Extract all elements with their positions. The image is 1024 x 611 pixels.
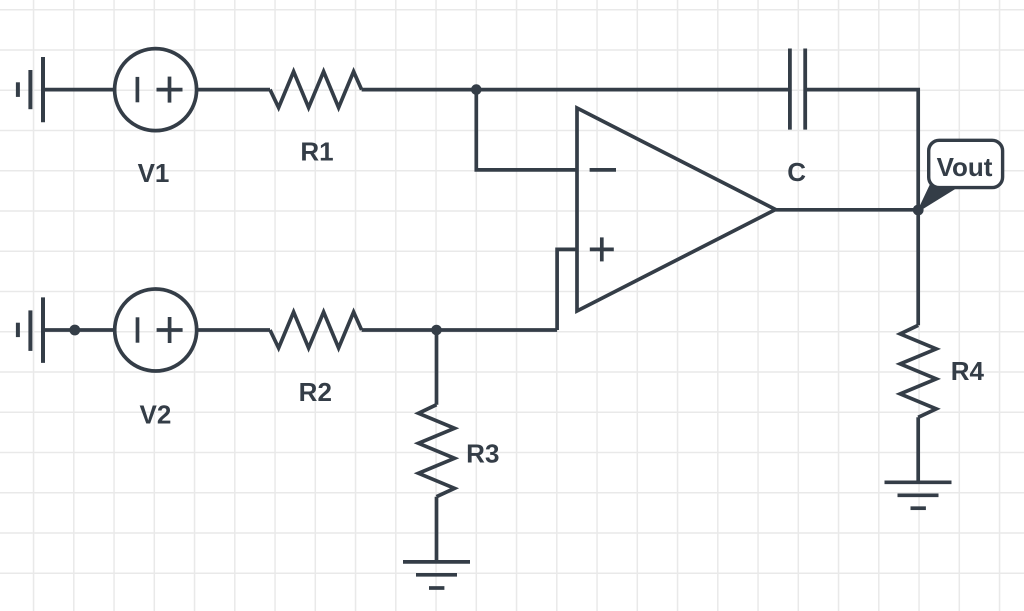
node Vout junction dot	[913, 205, 924, 216]
ground (left of V2)	[18, 297, 43, 363]
callout Vout	[919, 140, 1003, 210]
resistor R1	[270, 72, 362, 108]
node dot (ground / V2)	[69, 325, 80, 336]
resistor R3	[419, 405, 455, 497]
voltage source V1	[115, 49, 197, 131]
wire V2 to R2	[197, 328, 270, 332]
wire bottom row to op-amp non-inverting input	[557, 249, 577, 330]
ground (left of V1)	[18, 57, 43, 122]
wire R3 to ground	[435, 497, 439, 562]
svg-text:R2: R2	[299, 377, 332, 407]
wire ground to V2	[43, 328, 115, 332]
ground (below R4)	[885, 482, 952, 508]
wire capacitor to output column	[805, 90, 918, 210]
voltage source V2	[115, 289, 197, 371]
wire ground to V1	[43, 88, 115, 92]
node junction dot (R1 / op-amp inverting branch)	[471, 84, 482, 95]
node junction dot (R2 / R3)	[431, 325, 442, 336]
svg-text:Vout: Vout	[937, 152, 993, 182]
wire Vout node to R4	[916, 210, 920, 325]
svg-text:C: C	[787, 157, 806, 187]
op-amp U1	[577, 108, 776, 311]
wire R2 to op-amp branch	[362, 328, 557, 332]
svg-text:V2: V2	[139, 399, 171, 429]
wire R4 to ground	[916, 417, 920, 482]
wire op-amp output	[776, 208, 919, 212]
svg-text:R1: R1	[300, 136, 333, 166]
wire junction to op-amp inverting input	[476, 90, 577, 170]
wire junction to R3	[435, 330, 439, 405]
ground (below R3)	[403, 562, 470, 588]
capacitor C	[790, 49, 805, 130]
wire R1 to capacitor	[362, 88, 790, 92]
wire V1 to R1	[197, 88, 270, 92]
svg-text:R3: R3	[466, 438, 499, 468]
resistor R2	[270, 312, 362, 348]
resistor R4	[900, 325, 936, 417]
svg-text:R4: R4	[951, 356, 985, 386]
svg-text:V1: V1	[138, 158, 170, 188]
